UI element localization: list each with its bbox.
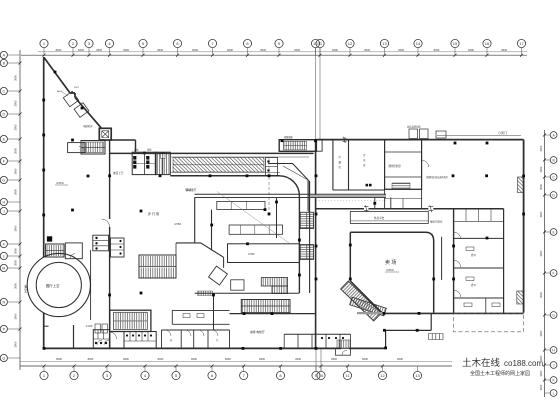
- left dimension line: [19, 50, 21, 370]
- toilet T3: [93, 235, 109, 251]
- svg-text:co188.com: co188.com: [504, 359, 543, 368]
- toilets TB: [124, 332, 156, 349]
- skylight diamond: [209, 266, 228, 285]
- svg-text:8400: 8400: [434, 48, 440, 52]
- top dimension tick marks and numbers: [43, 54, 46, 57]
- stair room R1 top-middle: [279, 140, 316, 152]
- dashed grid line through corridor: [268, 157, 270, 215]
- svg-text:8400: 8400: [123, 48, 129, 52]
- fan room stair: [392, 183, 410, 189]
- small rooms on diagonal: [63, 91, 78, 106]
- escalator E4 lower run: [350, 297, 387, 316]
- svg-text:8400: 8400: [362, 357, 368, 361]
- svg-text:⊙风门: ⊙风门: [498, 130, 507, 135]
- wall y313.6 center: [230, 313, 316, 315]
- svg-text:3900: 3900: [539, 211, 543, 217]
- svg-text:8400: 8400: [225, 357, 231, 361]
- corridor bottom wall: [170, 175, 279, 177]
- recessed wall bottom right: [385, 313, 432, 348]
- svg-text:3900: 3900: [14, 341, 18, 347]
- shaft stair SS2: [300, 245, 313, 260]
- svg-text:H: H: [2, 201, 5, 205]
- corridor turn inner chamfer: [283, 166, 308, 211]
- wall below elevator to x110: [109, 140, 111, 348]
- svg-text:3900: 3900: [539, 330, 543, 336]
- svg-text:8400: 8400: [331, 357, 337, 361]
- svg-text:Ah04: Ah04: [57, 90, 63, 93]
- escalator E3 block: [241, 300, 290, 313]
- svg-text:17: 17: [519, 41, 524, 46]
- big room top wall y208.7: [316, 208, 504, 210]
- svg-text:办公: 办公: [471, 283, 477, 287]
- column block above stair: [47, 236, 52, 241]
- svg-text:土木在线: 土木在线: [462, 357, 501, 369]
- svg-text:全国土木工程师的网上家园: 全国土木工程师的网上家园: [470, 370, 530, 377]
- svg-text:4.550: 4.550: [386, 268, 394, 272]
- right rooms top sub row: [454, 220, 504, 222]
- svg-text:3900: 3900: [14, 148, 18, 154]
- wall x441: [441, 237, 443, 280]
- svg-text:8400: 8400: [260, 48, 266, 52]
- svg-text:8400: 8400: [468, 48, 474, 52]
- multi-function hall walls: [195, 198, 212, 251]
- bottom row door arcs: [165, 330, 171, 336]
- hall jog wall: [176, 243, 224, 257]
- grid line stems 9 and 10 into building: [315, 48, 317, 140]
- leader line diagonal: [217, 192, 289, 244]
- svg-text:咖啡 电梯厅: 咖啡 电梯厅: [250, 330, 265, 334]
- big room chamfer wall: [350, 281, 382, 313]
- svg-text:8400: 8400: [397, 357, 403, 361]
- svg-text:8400: 8400: [192, 48, 198, 52]
- small stair at right wall lower: [517, 291, 524, 304]
- svg-text:Q: Q: [2, 357, 5, 361]
- svg-text:8400: 8400: [295, 357, 301, 361]
- corridor end rooms: [266, 158, 278, 176]
- toilets T4 right of main wall: [111, 238, 125, 257]
- corridor wall right of circle: [90, 250, 92, 320]
- svg-text:4.550: 4.550: [56, 181, 64, 185]
- top dimension line: [21, 54, 527, 56]
- svg-text:办公: 办公: [471, 253, 477, 257]
- top edge wall elevator to toilets: [111, 140, 135, 152]
- rooms below fan room: [385, 189, 422, 208]
- svg-text:3900: 3900: [14, 260, 18, 266]
- room R8 guard room: [68, 143, 85, 153]
- circular hall outer wall: [27, 253, 90, 316]
- right rooms dividers: [454, 237, 504, 239]
- corridor inner top line: [171, 156, 309, 158]
- svg-text:10: 10: [319, 373, 324, 378]
- escalator E5 diagonal: [341, 281, 382, 321]
- top grid circles: [40, 39, 48, 55]
- svg-text:3900: 3900: [14, 168, 18, 174]
- main section wall x=315.6: [315, 140, 317, 349]
- small rect R4: [231, 280, 244, 290]
- bottom-right exterior wall: [384, 312, 524, 314]
- svg-text:14: 14: [416, 41, 421, 46]
- svg-text:卖 场: 卖 场: [385, 259, 396, 266]
- interior dim line below band: [316, 200, 386, 202]
- svg-text:8400: 8400: [56, 357, 62, 361]
- stair box S2: [110, 310, 151, 331]
- shelf band B1: [217, 201, 265, 209]
- svg-text:L: L: [553, 391, 555, 395]
- svg-text:艺: 艺: [24, 289, 27, 294]
- svg-text:4.550: 4.550: [174, 222, 181, 226]
- svg-text:8400: 8400: [332, 48, 338, 52]
- svg-text:F: F: [553, 271, 555, 275]
- svg-text:4.550: 4.550: [248, 252, 255, 256]
- shelf band B2: [229, 225, 282, 234]
- door arc hall x110: [102, 219, 110, 227]
- svg-text:13: 13: [415, 373, 420, 378]
- right rooms left wall: [453, 209, 455, 314]
- svg-text:演: 演: [24, 284, 27, 289]
- right rooms right wall: [503, 209, 505, 314]
- door arc R2: [422, 160, 429, 167]
- exterior right wall: [523, 140, 525, 313]
- svg-text:坡道上空: 坡道上空: [113, 171, 124, 175]
- left grid circles: [0, 51, 20, 58]
- svg-text:12: 12: [380, 373, 385, 378]
- svg-text:16: 16: [485, 41, 490, 46]
- svg-text:圆厅上空: 圆厅上空: [46, 283, 60, 288]
- corridor wall y293: [195, 292, 300, 294]
- right grid circles: [545, 132, 557, 139]
- room R7 right of stair: [65, 243, 82, 259]
- svg-text:8400: 8400: [227, 48, 233, 52]
- narrow room right of stair room: [316, 140, 322, 151]
- svg-text:13: 13: [382, 41, 387, 46]
- shaft wall right: [309, 181, 311, 293]
- balcony band: [350, 212, 428, 224]
- svg-text:消防控制室: 消防控制室: [388, 164, 401, 168]
- duct line above top wall: [437, 135, 521, 137]
- small stair strip at y293: [198, 291, 213, 296]
- svg-text:8400: 8400: [88, 357, 94, 361]
- svg-text:8400: 8400: [501, 48, 507, 52]
- svg-text:8400: 8400: [364, 48, 370, 52]
- door arcs right rooms: [454, 232, 461, 239]
- stair SB right of toilets: [155, 152, 170, 174]
- dashed canopy outline: [454, 313, 524, 331]
- svg-text:8400: 8400: [398, 48, 404, 52]
- svg-text:L: L: [3, 255, 5, 259]
- svg-text:3900: 3900: [14, 75, 18, 81]
- shaft stair SS1: [300, 212, 313, 228]
- cold storage rooms x333-385: [333, 140, 385, 190]
- small stair at right wall upper: [518, 177, 524, 193]
- svg-text:3900: 3900: [539, 384, 543, 390]
- wall break symbols: [364, 205, 369, 212]
- door arcs below circle: [97, 340, 109, 345]
- bottom-mid rooms R6: [284, 333, 350, 335]
- bottom grid circles: [40, 366, 48, 380]
- svg-text:休息平台: 休息平台: [374, 216, 385, 220]
- right rooms furniture: [464, 303, 472, 307]
- svg-text:8400: 8400: [96, 48, 102, 52]
- svg-text:步 行 街: 步 行 街: [148, 211, 160, 216]
- svg-text:8400: 8400: [294, 48, 300, 52]
- svg-text:-0.020: -0.020: [85, 324, 93, 328]
- svg-text:咖啡厅阳台: 咖啡厅阳台: [430, 220, 443, 224]
- svg-text:J: J: [553, 363, 555, 367]
- corridor inner bottom line: [170, 171, 280, 173]
- svg-text:2h07: 2h07: [74, 87, 80, 89]
- travelator hatch in corridor: [173, 158, 264, 173]
- wall break symbol top wall: [343, 137, 347, 143]
- big room walls: [350, 232, 433, 313]
- svg-text:J: J: [3, 210, 5, 214]
- circular hall inner wall: [36, 262, 81, 307]
- exterior left wall: [43, 57, 45, 258]
- svg-text:3900: 3900: [14, 100, 18, 106]
- svg-text:8400: 8400: [78, 48, 84, 52]
- corridor turn chamfer: [268, 164, 309, 213]
- svg-text:8400: 8400: [157, 48, 163, 52]
- toilet block C1: [132, 152, 156, 174]
- svg-text:3900: 3900: [14, 124, 18, 130]
- entrance vestibule below wall: [336, 348, 351, 355]
- svg-text:8400: 8400: [123, 357, 129, 361]
- fan room R2: [385, 140, 422, 190]
- column dots: [42, 99, 45, 102]
- svg-text:8400: 8400: [56, 48, 62, 52]
- svg-text:3900: 3900: [14, 225, 18, 231]
- bottom exterior wall: [44, 347, 341, 349]
- escalator E1: [139, 255, 176, 278]
- exterior diagonal wall top-left: [44, 58, 101, 128]
- svg-text:3900: 3900: [539, 184, 543, 190]
- roof pipe fittings above wall: [409, 129, 418, 139]
- svg-text:电梯机房: 电梯机房: [83, 124, 93, 128]
- svg-text:3900: 3900: [539, 166, 543, 172]
- svg-text:G: G: [2, 179, 5, 183]
- svg-text:M: M: [2, 267, 5, 271]
- svg-text:8400: 8400: [158, 357, 164, 361]
- bottom grid stems into building: [315, 348, 317, 371]
- svg-text:C: C: [2, 90, 5, 94]
- room B3 center: [228, 244, 300, 263]
- svg-text:G: G: [552, 313, 555, 317]
- svg-text:3900: 3900: [539, 250, 543, 256]
- stair S1 left of wall: [81, 141, 105, 155]
- svg-text:3900: 3900: [14, 189, 18, 195]
- right dimension line: [544, 130, 546, 397]
- svg-text:N: N: [2, 301, 5, 305]
- corridor turn outer arc: [279, 176, 299, 293]
- svg-text:3900: 3900: [539, 292, 543, 298]
- svg-text:3900: 3900: [14, 283, 18, 289]
- svg-text:12: 12: [348, 41, 353, 46]
- corridor top wall: [110, 152, 314, 154]
- svg-text:3900: 3900: [539, 370, 543, 376]
- svg-text:15: 15: [453, 41, 458, 46]
- svg-text:D: D: [2, 113, 5, 117]
- sink fixtures below circle: [95, 324, 101, 333]
- toilets TA: [93, 330, 110, 349]
- exterior top wall right section: [316, 139, 523, 141]
- escalator E2 center: [261, 278, 287, 287]
- wall below circle stem: [73, 325, 75, 348]
- svg-text:3900: 3900: [14, 248, 18, 254]
- elevator shaft top-left: [99, 128, 111, 140]
- double wall y197: [195, 193, 387, 195]
- svg-text:3900: 3900: [539, 145, 543, 151]
- walkway wall x276.5: [276, 198, 278, 239]
- bottom row rooms: [162, 329, 230, 331]
- bottom dimension line: [20, 365, 452, 367]
- walkway wall x211.5 lower: [214, 257, 224, 330]
- room R5 above bottom row: [172, 310, 229, 324]
- svg-text:3900: 3900: [14, 313, 18, 319]
- svg-text:8400: 8400: [191, 357, 197, 361]
- stair S3 above circle: [46, 244, 64, 257]
- svg-text:8400: 8400: [259, 357, 265, 361]
- small stair in R6: [337, 340, 350, 348]
- exterior steps symbol SE1: [429, 334, 443, 340]
- bottom dimension numbers: [43, 365, 46, 368]
